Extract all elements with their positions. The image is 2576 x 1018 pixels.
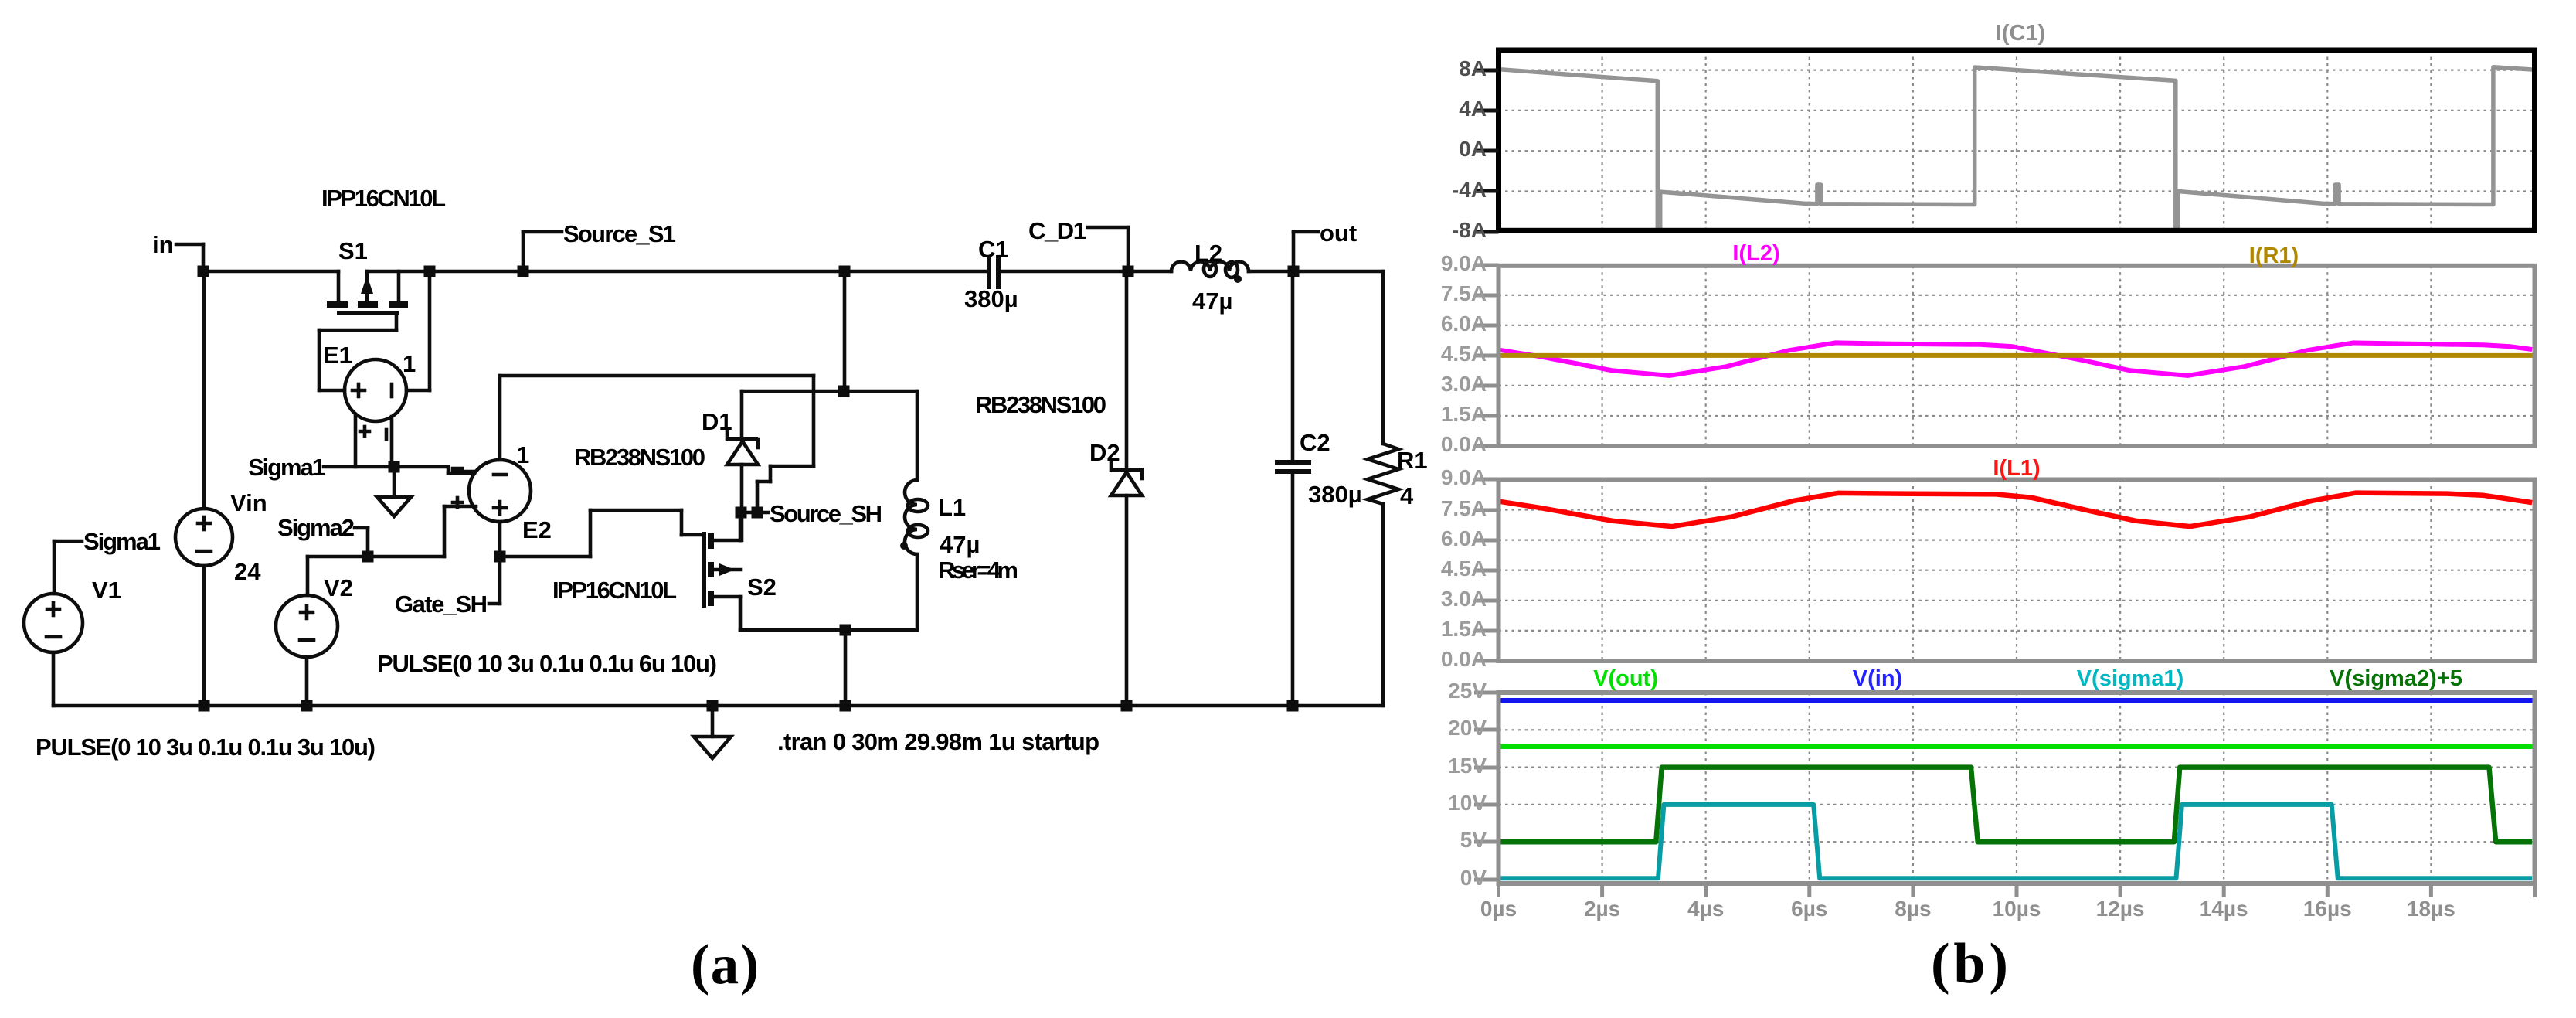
svg-text:4.5A: 4.5A bbox=[1441, 557, 1487, 580]
pane 3 y labels bbox=[1474, 478, 1499, 482]
svg-text:(a): (a) bbox=[691, 933, 759, 996]
svg-text:in: in bbox=[152, 231, 174, 258]
svg-text:0.0A: 0.0A bbox=[1441, 432, 1487, 456]
svg-text:5V: 5V bbox=[1460, 828, 1487, 852]
svg-text:Sigma1: Sigma1 bbox=[83, 528, 161, 555]
wire to ground rail bbox=[844, 630, 848, 706]
junction Sigma1/ground bbox=[389, 461, 400, 473]
svg-text:D1: D1 bbox=[702, 408, 732, 435]
svg-text:V2: V2 bbox=[324, 574, 353, 601]
junction Gate_SH bbox=[494, 551, 506, 563]
transistor S2 (IPP16CN10L) bbox=[704, 512, 740, 630]
svg-text:0µs: 0µs bbox=[1480, 897, 1517, 921]
svg-text:IPP16CN10L: IPP16CN10L bbox=[552, 577, 677, 604]
wire in stub bbox=[176, 243, 203, 247]
plot pane 1 border bbox=[1499, 50, 2535, 230]
svg-text:C1: C1 bbox=[978, 236, 1009, 263]
ground (E1 reference) bbox=[393, 467, 396, 497]
svg-text:10µs: 10µs bbox=[1993, 897, 2041, 921]
wire bus to D1 rail bbox=[843, 271, 847, 391]
svg-text:6.0A: 6.0A bbox=[1441, 526, 1487, 550]
wire D1 cathode rail bbox=[742, 390, 917, 393]
resistor R1 4 bbox=[1368, 271, 1398, 706]
svg-text:(b): (b) bbox=[1931, 932, 2008, 996]
svg-text:3.0A: 3.0A bbox=[1441, 372, 1487, 396]
wire ground rail bbox=[53, 704, 1383, 708]
wire S2/L1 bottom bbox=[740, 628, 917, 632]
svg-text:14µs: 14µs bbox=[2200, 897, 2248, 921]
svg-text:1: 1 bbox=[516, 441, 529, 468]
wire E2 top to Source_SH bbox=[500, 374, 814, 378]
svg-text:Rser=4m: Rser=4m bbox=[938, 557, 1018, 584]
diode D2 (RB238NS100) bbox=[1111, 271, 1142, 706]
svg-text:-4A: -4A bbox=[1452, 178, 1487, 202]
node Source_S1 bbox=[522, 232, 525, 271]
trace V(sigma2)+5 bbox=[1499, 768, 2533, 843]
svg-text:.tran 0 30m 29.98m 1u startup: .tran 0 30m 29.98m 1u startup bbox=[777, 728, 1099, 755]
svg-text:I(L2): I(L2) bbox=[1732, 241, 1779, 266]
pane 2 y labels bbox=[1474, 264, 1499, 267]
trace I(L1) bbox=[1499, 493, 2533, 527]
wire top bus left (in to S1 drain) bbox=[203, 270, 338, 274]
svg-text:E1: E1 bbox=[323, 342, 352, 369]
svg-text:4A: 4A bbox=[1459, 97, 1487, 121]
dependent source E2 bbox=[444, 376, 531, 557]
plot pane 1 grid bbox=[1602, 50, 1603, 230]
svg-text:8A: 8A bbox=[1459, 56, 1487, 80]
svg-text:47µ: 47µ bbox=[940, 531, 980, 558]
wire Sigma2/V2 to E2 control bbox=[308, 555, 444, 559]
svg-text:V(out): V(out) bbox=[1593, 666, 1658, 691]
svg-text:out: out bbox=[1320, 220, 1357, 247]
svg-text:1: 1 bbox=[403, 350, 416, 377]
svg-text:V(in): V(in) bbox=[1853, 666, 1902, 691]
junction ground stub bbox=[707, 700, 719, 712]
wire S1 gate to E1 bbox=[395, 313, 399, 330]
plot pane 3 grid bbox=[1602, 480, 1603, 662]
junction V2 bottom bbox=[301, 700, 313, 712]
voltage source V2 bbox=[276, 557, 338, 706]
svg-text:Source_S1: Source_S1 bbox=[563, 220, 676, 247]
svg-text:9.0A: 9.0A bbox=[1441, 465, 1487, 489]
trace I(R1) bbox=[1499, 353, 2535, 358]
svg-text:2µs: 2µs bbox=[1584, 897, 1620, 921]
svg-text:C2: C2 bbox=[1300, 429, 1330, 456]
plot pane 3 border bbox=[1499, 480, 2535, 662]
ground (main) bbox=[711, 706, 715, 737]
svg-text:RB238NS100: RB238NS100 bbox=[975, 391, 1106, 418]
svg-text:7.5A: 7.5A bbox=[1441, 496, 1487, 520]
svg-text:7.5A: 7.5A bbox=[1441, 281, 1487, 305]
svg-text:16µs: 16µs bbox=[2303, 897, 2352, 921]
wire Gate_SH to S2 gate bbox=[500, 555, 590, 559]
svg-text:4: 4 bbox=[1400, 482, 1414, 509]
wire top bus right (S1 to C1) bbox=[367, 270, 989, 274]
svg-text:E2: E2 bbox=[522, 516, 552, 543]
svg-text:R1: R1 bbox=[1397, 447, 1428, 474]
svg-text:PULSE(0 10 3u 0.1u 0.1u 3u 10u: PULSE(0 10 3u 0.1u 0.1u 3u 10u) bbox=[36, 734, 376, 761]
svg-text:-8A: -8A bbox=[1452, 218, 1487, 242]
inductor L2 47u bbox=[1171, 261, 1249, 283]
junction Sigma2 bbox=[362, 551, 374, 563]
svg-text:C_D1: C_D1 bbox=[1028, 217, 1086, 244]
junction Source_S1 stub bbox=[518, 266, 529, 277]
trace V(out) bbox=[1499, 744, 2535, 749]
diode D1 (RB238NS100) bbox=[727, 391, 758, 540]
plot pane 2 border bbox=[1499, 266, 2535, 446]
svg-text:3.0A: 3.0A bbox=[1441, 587, 1487, 611]
junction in/Vin bbox=[198, 266, 209, 277]
junction D1 branch bbox=[839, 266, 851, 277]
junction C2 bottom bbox=[1287, 700, 1299, 712]
wire L2 to out/R1 bbox=[1249, 270, 1383, 274]
trace V(in) bbox=[1499, 698, 2535, 703]
svg-text:0.0A: 0.0A bbox=[1441, 647, 1487, 671]
pane 4 y labels bbox=[1474, 691, 1499, 695]
svg-text:12µs: 12µs bbox=[2096, 897, 2145, 921]
svg-text:PULSE(0 10 3u 0.1u 0.1u 6u 10u: PULSE(0 10 3u 0.1u 0.1u 6u 10u) bbox=[377, 650, 717, 677]
wire C1 to L2 bbox=[998, 270, 1171, 274]
trace I(L2) bbox=[1499, 342, 2533, 376]
svg-text:380µ: 380µ bbox=[964, 285, 1018, 312]
plot pane 2 grid bbox=[1602, 266, 1603, 446]
svg-text:47µ: 47µ bbox=[1192, 288, 1232, 315]
svg-text:D2: D2 bbox=[1089, 439, 1120, 466]
pane 1 y labels bbox=[1474, 69, 1499, 73]
junction L1 bottom bbox=[840, 700, 851, 712]
x axis ticks and labels bbox=[1497, 884, 1500, 897]
svg-text:I(L1): I(L1) bbox=[1993, 456, 2040, 481]
svg-text:L2: L2 bbox=[1195, 240, 1222, 267]
svg-text:RB238NS100: RB238NS100 bbox=[574, 444, 705, 471]
node out bbox=[1292, 232, 1296, 271]
junction E1 output bbox=[424, 266, 436, 277]
svg-text:IPP16CN10L: IPP16CN10L bbox=[321, 185, 446, 212]
svg-text:Source_SH: Source_SH bbox=[770, 500, 882, 527]
node Source_SH bbox=[741, 511, 768, 515]
svg-text:Sigma2: Sigma2 bbox=[277, 514, 355, 541]
svg-text:L1: L1 bbox=[938, 494, 966, 521]
transistor S1 (IPP16CN10L) bbox=[327, 271, 408, 313]
junction Vin bottom bbox=[199, 700, 210, 712]
plot pane 4 grid bbox=[1602, 693, 1603, 884]
svg-text:1.5A: 1.5A bbox=[1441, 617, 1487, 641]
svg-text:0A: 0A bbox=[1459, 137, 1487, 161]
svg-text:15V: 15V bbox=[1448, 754, 1487, 778]
voltage source Vin 24V bbox=[175, 271, 233, 706]
trace I(C1) bbox=[1501, 67, 2532, 230]
svg-text:0V: 0V bbox=[1460, 866, 1487, 890]
svg-text:Gate_SH: Gate_SH bbox=[395, 591, 488, 618]
plot pane 4 border bbox=[1499, 693, 2535, 884]
svg-text:V(sigma1): V(sigma1) bbox=[2077, 666, 2184, 691]
svg-text:V1: V1 bbox=[92, 577, 121, 604]
junction D2 bottom bbox=[1121, 700, 1133, 712]
svg-text:4.5A: 4.5A bbox=[1441, 342, 1487, 366]
svg-text:S1: S1 bbox=[338, 237, 368, 264]
svg-text:Vin: Vin bbox=[230, 489, 267, 516]
svg-text:V(sigma2)+5: V(sigma2)+5 bbox=[2330, 666, 2462, 691]
svg-text:24: 24 bbox=[234, 558, 261, 585]
svg-text:6.0A: 6.0A bbox=[1441, 312, 1487, 335]
trace V(sigma1) bbox=[1500, 805, 2533, 878]
svg-text:I(R1): I(R1) bbox=[2249, 243, 2299, 268]
svg-text:1.5A: 1.5A bbox=[1441, 402, 1487, 426]
svg-text:Sigma1: Sigma1 bbox=[248, 454, 325, 481]
svg-text:18µs: 18µs bbox=[2407, 897, 2455, 921]
svg-text:4µs: 4µs bbox=[1687, 897, 1724, 921]
svg-text:8µs: 8µs bbox=[1895, 897, 1931, 921]
capacitor C1 380u bbox=[989, 255, 998, 289]
svg-text:380µ: 380µ bbox=[1308, 481, 1362, 508]
inductor L1 47u bbox=[900, 391, 928, 630]
svg-text:S2: S2 bbox=[747, 574, 777, 601]
voltage source V1 bbox=[24, 541, 83, 706]
svg-text:10V: 10V bbox=[1448, 791, 1487, 815]
svg-text:20V: 20V bbox=[1448, 716, 1487, 740]
svg-text:9.0A: 9.0A bbox=[1441, 251, 1487, 275]
svg-text:I(C1): I(C1) bbox=[1996, 21, 2045, 46]
dependent source E1 bbox=[319, 271, 430, 467]
capacitor C2 380u bbox=[1275, 271, 1311, 706]
svg-text:6µs: 6µs bbox=[1791, 897, 1827, 921]
svg-text:25V: 25V bbox=[1448, 679, 1487, 703]
